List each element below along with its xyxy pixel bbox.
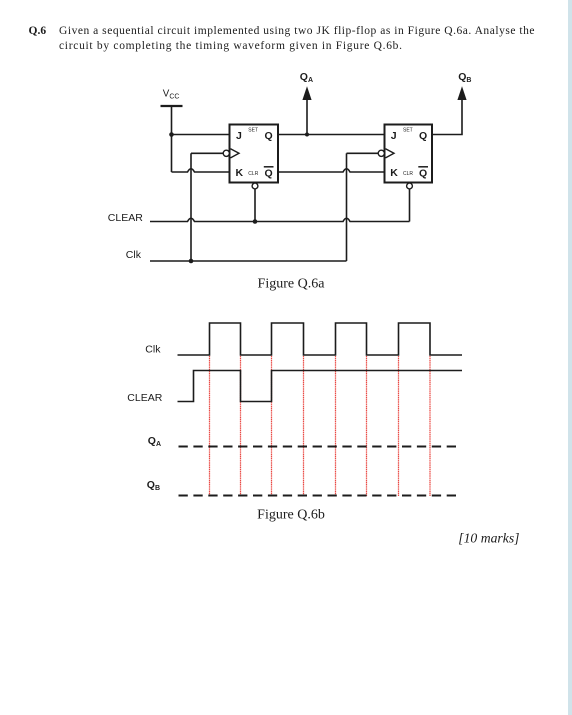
svg-text:CLEAR: CLEAR <box>108 212 143 224</box>
svg-text:QB: QB <box>147 479 160 492</box>
QA arrowhead <box>302 86 311 100</box>
svg-text:QA: QA <box>148 435 161 448</box>
U2 clock triangle <box>386 149 395 158</box>
svg-text:Q: Q <box>265 130 273 142</box>
wire Vcc vertical drop <box>171 106 173 172</box>
junction node FF1 CLR on CLEAR line <box>253 219 258 224</box>
svg-text:K: K <box>390 167 398 179</box>
svg-text:J: J <box>391 130 397 142</box>
svg-text:Q: Q <box>265 168 273 180</box>
QB arrowhead <box>457 86 466 100</box>
QB unknown dashed line <box>179 495 458 497</box>
svg-text:Q: Q <box>419 168 427 180</box>
junction node QA on Q wire <box>305 133 309 137</box>
Vcc power bar <box>161 105 183 107</box>
svg-text:[10 marks]: [10 marks] <box>458 531 519 546</box>
wire clock FF1 vertical to Clk line <box>190 153 192 261</box>
svg-text:Given a sequential circuit imp: Given a sequential circuit implemented u… <box>59 25 535 37</box>
CLEAR waveform trace <box>178 371 463 402</box>
CLEAR wire (hops over both clock verticals) <box>150 218 410 221</box>
wire FF1 CLR to CLEAR line <box>254 189 256 222</box>
wire FF2 CLR down from bubble <box>409 189 411 222</box>
junction node Vcc/J <box>169 132 174 137</box>
svg-text:SET: SET <box>403 127 413 133</box>
svg-text:CLR: CLR <box>403 171 413 177</box>
svg-text:CLEAR: CLEAR <box>127 392 162 404</box>
wire Q of FF1 to J of FF2 <box>278 134 385 136</box>
svg-text:circuit by completing the timi: circuit by completing the timing wavefor… <box>59 40 402 52</box>
U2 CLR bubble <box>407 183 413 189</box>
U1 CLR bubble <box>252 183 258 189</box>
wire clock FF1 horizontal <box>191 152 223 154</box>
svg-text:Figure Q.6b: Figure Q.6b <box>257 507 325 522</box>
JK flip-flop U1 box <box>230 125 279 183</box>
wire clock FF2 horizontal <box>347 152 379 154</box>
wire Q of FF2 to QB <box>432 97 462 135</box>
svg-text:Figure Q.6a: Figure Q.6a <box>258 276 326 291</box>
U2 clock bubble <box>378 150 384 156</box>
svg-text:Clk: Clk <box>145 343 161 355</box>
svg-text:K: K <box>236 167 244 179</box>
junction node clock1 on Clk line <box>189 259 194 264</box>
svg-text:SET: SET <box>248 127 258 133</box>
U1 clock triangle <box>231 149 240 158</box>
wire K input FF1 (hop over clock line) <box>172 169 230 172</box>
svg-text:Clk: Clk <box>126 249 142 261</box>
JK flip-flop U2 box <box>385 125 433 183</box>
wire Qbar of FF1 to K of FF2 (hop over clock line) <box>278 169 385 172</box>
svg-text:J: J <box>236 130 242 142</box>
wire QA output vertical <box>306 97 308 135</box>
svg-text:Q.6: Q.6 <box>29 25 47 37</box>
Clk waveform trace <box>178 323 463 355</box>
svg-text:VCC: VCC <box>163 88 180 100</box>
svg-text:QB: QB <box>458 71 471 84</box>
svg-text:QA: QA <box>300 71 313 84</box>
QA unknown dashed line <box>179 446 460 448</box>
Clk wire <box>150 260 347 262</box>
right margin blue band <box>568 0 572 715</box>
svg-text:CLR: CLR <box>248 171 258 177</box>
wire clock FF2 vertical to Clk line end <box>346 153 348 261</box>
wire J input FF1 <box>172 134 230 136</box>
red marker dotted lines at clock edges <box>210 356 431 496</box>
svg-text:Q: Q <box>419 130 427 142</box>
U1 clock bubble <box>223 150 229 156</box>
